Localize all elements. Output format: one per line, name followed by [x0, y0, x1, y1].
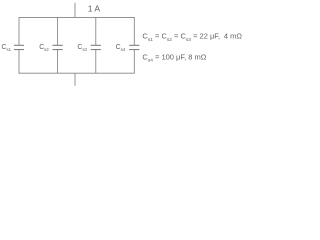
svg-text:Cs4: Cs4	[116, 44, 126, 52]
svg-text:Cs4 = 100 μF, 8 mΩ: Cs4 = 100 μF, 8 mΩ	[142, 52, 206, 63]
wire C_s1 bottom lead	[18, 50, 20, 74]
capacitor C_s1 plates	[14, 45, 24, 49]
wire bottom rail	[19, 72, 135, 74]
wire C_s3 top lead	[95, 17, 97, 45]
wire C_s2 top lead	[57, 17, 59, 45]
svg-text:Cs1 = Cs2 = Cs3 = 22 μF, 4 mΩ: Cs1 = Cs2 = Cs3 = 22 μF, 4 mΩ	[142, 32, 242, 43]
wire C_s3 bottom lead	[95, 50, 97, 74]
wire C_s4 top lead	[133, 17, 135, 45]
svg-text:Cs1: Cs1	[2, 44, 12, 52]
svg-text:Cs2: Cs2	[39, 44, 49, 52]
capacitor C_s2 plates	[53, 45, 63, 49]
svg-text:Cs3: Cs3	[77, 44, 87, 52]
wire C_s4 bottom lead	[133, 50, 135, 74]
svg-text:1 A: 1 A	[88, 4, 101, 14]
wire bottom source lead	[74, 73, 76, 86]
wire C_s1 top lead	[18, 17, 20, 45]
capacitor C_s4 plates	[129, 45, 139, 49]
capacitor C_s3 plates	[91, 45, 101, 49]
wire C_s2 bottom lead	[57, 50, 59, 74]
wire top rail	[19, 16, 135, 18]
wire top source lead (1 A input)	[74, 3, 76, 18]
